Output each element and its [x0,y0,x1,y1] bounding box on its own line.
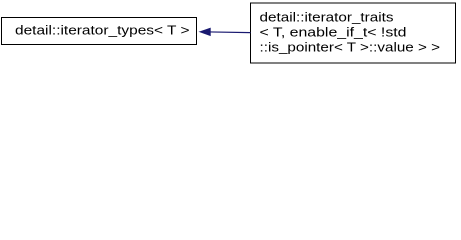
svg-text:detail::iterator_types< T >: detail::iterator_types< T > [15,22,190,37]
svg-text:::is_pointer< T >::value > >: ::is_pointer< T >::value > > [260,40,441,55]
node box detail::iterator_types< T > [2,18,197,45]
svg-text:detail::iterator_traits: detail::iterator_traits [260,9,395,24]
svg-text:< T, enable_if_t< !std: < T, enable_if_t< !std [260,25,407,40]
inheritance edge wire [210,31,251,34]
inheritance arrowhead [200,28,210,35]
node box detail::iterator_traits specialization [251,3,456,63]
